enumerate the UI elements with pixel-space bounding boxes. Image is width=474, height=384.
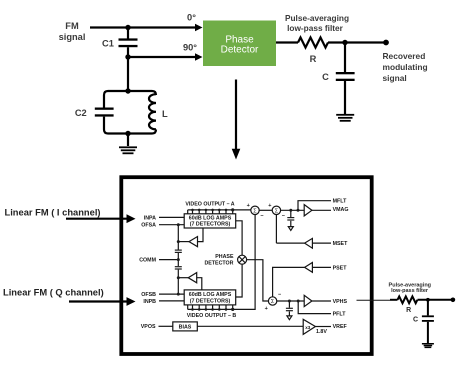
svg-text:VIDEO OUTPUT – B: VIDEO OUTPUT – B bbox=[187, 313, 237, 319]
svg-text:R: R bbox=[310, 54, 317, 64]
svg-text:modulating: modulating bbox=[383, 62, 428, 72]
svg-text:BIAS: BIAS bbox=[179, 324, 192, 330]
svg-text:Pulse-averaging: Pulse-averaging bbox=[285, 13, 349, 23]
svg-text:COMM: COMM bbox=[139, 258, 156, 264]
svg-text:0°: 0° bbox=[187, 12, 196, 22]
svg-text:(7 DETECTORS): (7 DETECTORS) bbox=[190, 298, 231, 304]
svg-text:x3: x3 bbox=[305, 325, 311, 330]
svg-text:VPOS: VPOS bbox=[141, 324, 156, 330]
svg-text:Linear FM ( I channel): Linear FM ( I channel) bbox=[5, 208, 101, 218]
svg-text:low-pass filter: low-pass filter bbox=[287, 23, 344, 33]
svg-text:Σ: Σ bbox=[271, 299, 275, 305]
svg-text:VIDEO OUTPUT – A: VIDEO OUTPUT – A bbox=[185, 202, 234, 208]
svg-text:FM: FM bbox=[65, 21, 79, 31]
svg-text:INPA: INPA bbox=[144, 215, 156, 221]
svg-text:VPHS: VPHS bbox=[333, 299, 348, 305]
svg-text:(7 DETECTORS): (7 DETECTORS) bbox=[190, 222, 231, 228]
svg-text:Recovered: Recovered bbox=[383, 51, 426, 61]
svg-text:PHASE: PHASE bbox=[215, 254, 234, 260]
svg-text:60dB LOG AMPS: 60dB LOG AMPS bbox=[189, 292, 232, 298]
svg-text:L: L bbox=[162, 109, 168, 119]
svg-text:−: − bbox=[278, 292, 281, 298]
svg-text:MFLT: MFLT bbox=[333, 199, 347, 205]
svg-text:signal: signal bbox=[383, 73, 407, 83]
svg-text:Detector: Detector bbox=[221, 44, 259, 55]
svg-text:INPB: INPB bbox=[143, 299, 156, 305]
svg-text:+: + bbox=[247, 203, 250, 209]
svg-text:C: C bbox=[413, 317, 418, 324]
svg-text:PFLT: PFLT bbox=[333, 312, 347, 318]
svg-text:signal: signal bbox=[59, 32, 86, 42]
svg-text:Linear FM ( Q channel): Linear FM ( Q channel) bbox=[3, 288, 104, 298]
svg-text:OFSA: OFSA bbox=[141, 223, 156, 229]
svg-text:VMAG: VMAG bbox=[333, 207, 349, 213]
svg-text:PSET: PSET bbox=[333, 265, 348, 271]
svg-text:60dB LOG AMPS: 60dB LOG AMPS bbox=[189, 216, 232, 222]
svg-text:−: − bbox=[282, 213, 285, 219]
svg-text:C1: C1 bbox=[102, 39, 114, 49]
svg-text:R: R bbox=[406, 307, 411, 314]
svg-text:C2: C2 bbox=[75, 108, 87, 118]
svg-text:OFSB: OFSB bbox=[141, 292, 156, 298]
svg-text:+: + bbox=[265, 306, 268, 312]
svg-text:Σ: Σ bbox=[275, 208, 279, 214]
svg-text:−: − bbox=[260, 213, 263, 219]
svg-text:+: + bbox=[268, 203, 271, 209]
svg-text:DETECTOR: DETECTOR bbox=[204, 260, 233, 266]
svg-text:90°: 90° bbox=[183, 42, 197, 52]
svg-text:VREF: VREF bbox=[333, 324, 348, 330]
svg-text:C: C bbox=[322, 72, 329, 82]
svg-text:low-pass filter: low-pass filter bbox=[391, 288, 429, 294]
svg-text:MSET: MSET bbox=[333, 241, 348, 247]
svg-text:Σ: Σ bbox=[253, 208, 257, 214]
svg-text:1.8V: 1.8V bbox=[316, 329, 327, 335]
